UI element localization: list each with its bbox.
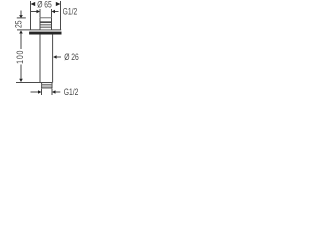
- svg-text:Ø 65: Ø 65: [37, 0, 52, 10]
- svg-text:100: 100: [15, 50, 25, 64]
- svg-text:Ø 26: Ø 26: [64, 52, 79, 62]
- svg-text:25: 25: [13, 20, 23, 28]
- svg-text:G1/2: G1/2: [63, 7, 78, 17]
- svg-text:G1/2: G1/2: [64, 87, 79, 97]
